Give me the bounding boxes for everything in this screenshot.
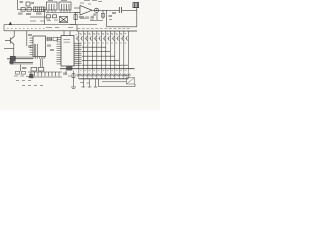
label text xyxy=(109,16,113,17)
matrix row labels xyxy=(76,34,127,43)
resistor R5 xyxy=(31,67,37,71)
resistor R7 xyxy=(47,37,52,41)
wire connector row top xyxy=(8,58,33,60)
label text xyxy=(80,82,84,84)
wire xyxy=(102,81,127,83)
label text xyxy=(68,75,72,77)
label text xyxy=(80,18,85,20)
wire xyxy=(75,13,77,25)
wire xyxy=(122,9,137,11)
label text xyxy=(91,16,95,17)
capacitor C2 xyxy=(74,15,77,20)
blob xyxy=(10,60,14,64)
wires IC pins down xyxy=(48,10,70,13)
label text xyxy=(22,68,27,69)
connector pins comb xyxy=(16,56,32,58)
crystal Y1 xyxy=(60,17,68,23)
label text xyxy=(63,73,67,74)
wire xyxy=(134,84,136,87)
label text xyxy=(98,1,102,3)
label text xyxy=(47,20,51,22)
op-amp U3 triangle xyxy=(80,6,92,16)
label text xyxy=(14,75,18,77)
label text xyxy=(20,75,24,77)
label text xyxy=(93,14,96,15)
jack J1 xyxy=(127,78,135,84)
comb pins xyxy=(31,72,59,76)
label text xyxy=(46,27,52,29)
wire bus A xyxy=(4,24,97,26)
wire xyxy=(76,25,78,32)
wire xyxy=(106,10,108,27)
wire xyxy=(44,10,46,25)
IC U4 bottom pins xyxy=(34,57,45,59)
wire matrix top bus xyxy=(77,30,137,32)
connector pins comb 2 xyxy=(12,62,32,64)
label text xyxy=(26,14,31,15)
matrix staircase rows xyxy=(82,47,128,65)
resistor R8 xyxy=(53,37,58,41)
wire xyxy=(30,16,46,18)
wire connector row bottom xyxy=(9,61,33,63)
capacitor C4 xyxy=(119,7,121,13)
label text xyxy=(47,39,52,40)
label text xyxy=(26,76,30,78)
IC U1 xyxy=(47,2,58,10)
label text xyxy=(46,18,50,20)
ground GND1 xyxy=(71,87,76,88)
matrix columns xyxy=(79,31,129,69)
wire xyxy=(108,9,119,11)
label text xyxy=(68,27,73,29)
wire right side down xyxy=(136,8,138,27)
label text xyxy=(36,13,42,14)
resistor R12 xyxy=(22,71,26,74)
resistor R6 xyxy=(38,67,44,71)
matrix transistors row xyxy=(76,36,129,41)
wire xyxy=(20,65,22,72)
label text xyxy=(47,45,51,46)
wire bus under ICs xyxy=(46,12,78,14)
arrow tick xyxy=(9,22,12,25)
wire amp input xyxy=(74,7,80,9)
resistor R4 xyxy=(53,15,57,18)
label text xyxy=(80,2,84,4)
IC U5 right pins dense xyxy=(74,43,82,65)
label text xyxy=(112,13,116,14)
label text xyxy=(64,40,71,43)
label text xyxy=(85,17,89,18)
label text xyxy=(16,79,19,81)
label text xyxy=(40,20,45,22)
label text xyxy=(31,3,34,4)
resistor R13 xyxy=(101,14,104,18)
IC U5 xyxy=(61,36,74,67)
label text xyxy=(28,79,31,81)
capacitor C1 xyxy=(26,2,30,6)
wire xyxy=(26,31,28,46)
transistor Q2 xyxy=(5,37,14,45)
wire xyxy=(13,45,15,58)
transistor Q4 blob xyxy=(66,66,72,70)
wire bus B xyxy=(4,30,78,32)
label text xyxy=(84,0,90,2)
matrix column labels xyxy=(77,28,129,30)
label text xyxy=(50,50,54,51)
wire xyxy=(90,20,103,22)
caption text xyxy=(22,85,43,87)
label text xyxy=(22,79,25,81)
wire resistor row xyxy=(18,9,46,11)
IC U4 left pins xyxy=(30,38,34,55)
bus tick labels xyxy=(7,27,45,29)
label text xyxy=(48,0,53,1)
label text xyxy=(28,46,32,47)
wire pair vertical xyxy=(41,59,43,68)
wire xyxy=(69,31,71,36)
wire input left vertical xyxy=(17,0,19,10)
label text xyxy=(79,17,84,18)
IC U4 xyxy=(33,36,46,57)
speaker LS1 xyxy=(133,3,139,8)
label text xyxy=(61,0,67,1)
wire xyxy=(28,76,62,78)
label text xyxy=(54,19,58,21)
wire xyxy=(98,79,100,87)
IC U5 left pins xyxy=(57,38,62,64)
transistor Q3 with blob xyxy=(7,56,15,61)
wire xyxy=(63,31,65,36)
wire amp output xyxy=(92,9,108,11)
wire xyxy=(13,31,15,37)
wire matrix bottom bus xyxy=(60,68,135,70)
label text xyxy=(30,20,36,22)
resistor R3 xyxy=(47,15,51,18)
label text xyxy=(60,20,66,22)
wire bottom long xyxy=(99,86,136,88)
wire xyxy=(96,12,98,20)
ground stems xyxy=(82,79,98,87)
resistor R2 xyxy=(27,8,31,12)
label text xyxy=(87,82,90,84)
wire amp input 2 xyxy=(74,12,80,14)
lamp row L1..L12 xyxy=(77,69,130,79)
resistor R11 xyxy=(16,71,20,74)
label text xyxy=(88,3,91,5)
label text xyxy=(124,75,127,77)
wire xyxy=(28,71,62,73)
label text xyxy=(55,27,59,29)
resistor network RN1 xyxy=(34,7,46,12)
wire xyxy=(3,25,5,31)
transistor Q1 xyxy=(94,8,98,12)
label text xyxy=(90,18,94,20)
junction node xyxy=(96,10,97,11)
label text xyxy=(70,24,76,26)
wire xyxy=(102,10,104,19)
IC U2 xyxy=(59,2,71,10)
label text xyxy=(92,0,97,2)
label text xyxy=(28,35,32,36)
blob component xyxy=(29,74,33,78)
wire xyxy=(4,48,14,50)
resistor R14 xyxy=(72,74,75,78)
resistor R1 xyxy=(21,8,25,12)
lamp labels xyxy=(80,70,127,72)
label text xyxy=(109,19,112,21)
label text xyxy=(18,13,23,14)
wire lamp bottom bus xyxy=(79,78,129,80)
label text xyxy=(20,2,24,3)
wires down xyxy=(66,71,74,87)
wire bottom of loop xyxy=(107,26,137,28)
IC U4 inner hatch xyxy=(34,44,37,56)
